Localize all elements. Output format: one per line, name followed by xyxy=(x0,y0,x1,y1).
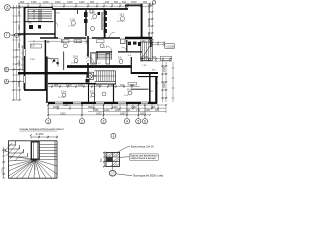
svg-text:Схема Асфальтобетонной смеси: Схема Асфальтобетонной смеси xyxy=(20,127,64,131)
svg-text:12.4: 12.4 xyxy=(61,91,66,94)
svg-text:920: 920 xyxy=(20,1,25,4)
svg-text:12.4 м: 12.4 м xyxy=(58,97,65,99)
svg-text:17.5: 17.5 xyxy=(70,19,75,22)
svg-text:1510: 1510 xyxy=(131,1,137,4)
svg-text:1200: 1200 xyxy=(43,1,49,4)
svg-text:4×250: 4×250 xyxy=(36,132,44,136)
svg-text:1-09: 1-09 xyxy=(45,41,51,44)
svg-text:3300: 3300 xyxy=(148,19,151,25)
svg-text:1200: 1200 xyxy=(104,109,110,112)
svg-text:310: 310 xyxy=(152,56,157,59)
svg-text:3300: 3300 xyxy=(163,82,166,88)
svg-text:910: 910 xyxy=(120,84,125,87)
svg-text:В: В xyxy=(5,68,7,72)
svg-text:15.8: 15.8 xyxy=(73,56,78,59)
svg-text:900: 900 xyxy=(90,1,95,4)
svg-text:Г: Г xyxy=(6,33,8,37)
svg-text:1800: 1800 xyxy=(120,112,126,115)
svg-text:закрепления в венцах: закрепления в венцах xyxy=(130,157,156,160)
svg-text:5: 5 xyxy=(137,119,139,123)
svg-text:5.6: 5.6 xyxy=(118,57,122,60)
svg-text:2: 2 xyxy=(81,119,83,123)
svg-text:2100: 2100 xyxy=(60,112,66,115)
svg-text:1-10: 1-10 xyxy=(76,41,82,44)
svg-text:2120: 2120 xyxy=(50,74,56,76)
svg-text:900: 900 xyxy=(146,109,151,112)
svg-text:600: 600 xyxy=(144,56,149,59)
svg-text:810: 810 xyxy=(105,1,110,4)
svg-text:4200: 4200 xyxy=(63,104,69,107)
svg-text:1250: 1250 xyxy=(18,10,21,16)
svg-text:2400: 2400 xyxy=(148,32,151,38)
svg-text:1110: 1110 xyxy=(78,84,84,87)
svg-text:Балка венца СМ-16: Балка венца СМ-16 xyxy=(131,146,154,149)
svg-text:3.1: 3.1 xyxy=(92,12,96,15)
svg-text:8.2: 8.2 xyxy=(90,91,94,94)
svg-text:600: 600 xyxy=(140,112,145,115)
svg-text:420: 420 xyxy=(155,109,160,112)
svg-text:4: 4 xyxy=(126,119,128,123)
svg-text:15.8 м: 15.8 м xyxy=(71,63,78,65)
svg-text:1110: 1110 xyxy=(108,84,114,87)
svg-text:4200: 4200 xyxy=(53,106,59,109)
svg-text:3: 3 xyxy=(103,119,105,123)
svg-text:900: 900 xyxy=(143,1,148,4)
svg-text:980: 980 xyxy=(54,84,59,87)
svg-text:810: 810 xyxy=(122,1,127,4)
svg-text:15.2 м: 15.2 м xyxy=(117,21,124,23)
svg-text:2400: 2400 xyxy=(96,112,102,115)
svg-text:1200: 1200 xyxy=(79,1,85,4)
svg-text:10.6: 10.6 xyxy=(127,89,132,92)
svg-text:2100: 2100 xyxy=(18,60,21,66)
svg-text:800: 800 xyxy=(114,1,119,4)
svg-text:910: 910 xyxy=(126,109,131,112)
svg-text:1010: 1010 xyxy=(66,84,72,87)
svg-text:1: 1 xyxy=(113,134,115,138)
svg-text:Прокладка мб Ø200 (т.мм): Прокладка мб Ø200 (т.мм) xyxy=(133,175,164,178)
svg-text:1400: 1400 xyxy=(67,1,73,4)
svg-text:1500: 1500 xyxy=(30,59,36,61)
svg-text:1600: 1600 xyxy=(55,1,61,4)
svg-text:15.2: 15.2 xyxy=(120,14,125,17)
svg-text:880: 880 xyxy=(130,84,135,87)
svg-text:2400: 2400 xyxy=(163,66,166,72)
svg-text:1200: 1200 xyxy=(148,6,151,12)
svg-text:+3,250: +3,250 xyxy=(166,44,175,48)
svg-text:6.3: 6.3 xyxy=(31,45,35,48)
svg-text:3300: 3300 xyxy=(18,42,21,48)
svg-text:1230: 1230 xyxy=(140,40,146,43)
svg-text:2800: 2800 xyxy=(18,24,21,30)
svg-text:1400: 1400 xyxy=(31,1,37,4)
svg-text:1750: 1750 xyxy=(2,167,4,173)
svg-text:1010: 1010 xyxy=(96,84,102,87)
svg-text:17.5 м: 17.5 м xyxy=(68,26,75,28)
svg-text:1: 1 xyxy=(47,119,49,123)
svg-text:2500: 2500 xyxy=(18,81,21,87)
svg-text:6: 6 xyxy=(144,119,146,123)
